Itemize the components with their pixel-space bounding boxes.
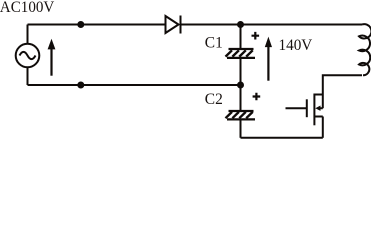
junction dot on top rail at x=81 [77,21,84,28]
wire: AC source top lead [27,25,29,45]
svg-text:AC100V: AC100V [0,0,55,16]
svg-text:140V: 140V [279,37,313,54]
wire: drain lead of Q1 up and right to coil L1 [323,75,362,94]
capacitor C1 (electrolytic, hatched plate) [226,49,256,58]
junction dot: top rail / C1 [237,21,244,28]
wire: AC source bottom lead to middle rail corner [27,67,29,86]
plus sign of C1 [252,32,260,40]
junction dot: middle rail / C1-C2 [237,82,244,89]
wire: C2 bottom lead [240,119,242,137]
svg-text:C2: C2 [205,91,223,108]
AC source V1 (circle with sine) [16,44,40,68]
wire: bottom rail [241,137,323,139]
arrow: AC source polarity arrow [48,39,56,76]
diode D1 [166,16,181,34]
wire: source lead of Q1 down to bottom rail [322,117,324,138]
svg-text:C1: C1 [205,35,223,52]
wire: top rail right segment (diode cathode to coil) [182,24,363,26]
capacitor C2 (electrolytic, hatched plate) [226,111,256,119]
wire: C2 top lead [240,85,242,111]
wire: middle rail [28,84,241,86]
plus sign of C2 [253,93,261,101]
arrow: 140V sense arrow [265,37,272,81]
transistor Q1 (N-channel MOSFET) [286,94,323,126]
junction dot on middle rail at x=81 [77,82,84,89]
transformer / inductor L1 [359,24,371,75]
wire: top rail left segment (source top corner to diode anode) [28,24,166,26]
wire: C1 bottom lead [240,58,242,85]
wire: C1 top lead [240,25,242,49]
arrowhead of Q1 body arrow [315,106,320,111]
